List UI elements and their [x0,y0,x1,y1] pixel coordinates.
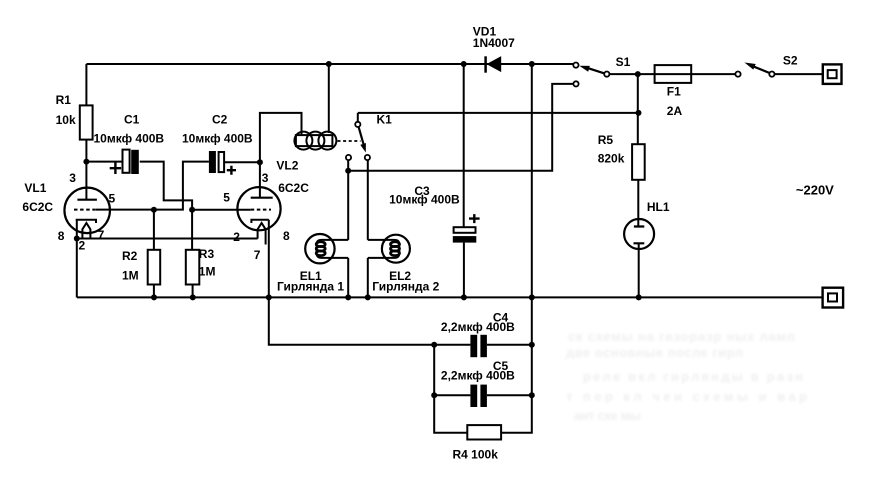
svg-text:10мкф 400В: 10мкф 400В [182,132,253,146]
svg-text:ант схе мы: ант схе мы [574,408,641,423]
svg-text:8: 8 [58,229,65,243]
svg-text:~220V: ~220V [796,183,834,198]
svg-text:Гирлянда 2: Гирлянда 2 [372,280,439,294]
svg-text:R3: R3 [199,247,215,261]
svg-text:10мкф 400В: 10мкф 400В [94,132,165,146]
svg-text:R2: R2 [122,249,138,263]
svg-text:HL1: HL1 [647,200,670,214]
svg-text:т пер кл чен схемы и: т пер кл чен схемы и вар [566,389,807,404]
svg-text:Гирлянда 1: Гирлянда 1 [277,280,344,294]
svg-text:R1: R1 [56,93,72,107]
svg-text:2,2мкф 400В: 2,2мкф 400В [441,369,515,383]
svg-text:2A: 2A [667,104,683,118]
svg-text:K1: K1 [377,113,393,127]
svg-text:C1: C1 [124,113,140,127]
svg-text:ск схемы на газоразр ных: ск схемы на газоразр ных ламп [568,329,795,344]
svg-text:R5: R5 [598,133,614,147]
svg-text:2: 2 [233,230,240,244]
svg-text:820k: 820k [598,152,625,166]
svg-text:1M: 1M [122,268,139,282]
svg-text:VL2: VL2 [276,159,298,173]
svg-text:7: 7 [98,228,105,242]
svg-text:F1: F1 [667,85,681,99]
svg-text:S1: S1 [616,55,631,69]
svg-text:5: 5 [109,192,116,206]
svg-text:2,2мкф 400В: 2,2мкф 400В [441,320,515,334]
svg-text:2: 2 [79,239,86,253]
svg-text:7: 7 [254,248,261,262]
svg-text:10мкф 400В: 10мкф 400В [389,193,460,207]
svg-text:1N4007: 1N4007 [473,36,515,50]
svg-text:R4 100k: R4 100k [453,448,499,462]
svg-text:1M: 1M [199,265,216,279]
svg-text:3: 3 [262,171,269,185]
svg-text:8: 8 [283,229,290,243]
svg-text:6С2С: 6С2С [22,200,53,214]
svg-text:C2: C2 [212,113,228,127]
svg-text:две основные после гирл: две основные после гирл [566,345,743,360]
svg-text:3: 3 [69,171,76,185]
svg-text:10k: 10k [56,113,76,127]
svg-text:реле вкл гирлянды в разн: реле вкл гирлянды в разн [583,369,803,384]
svg-text:VL1: VL1 [24,181,46,195]
svg-text:5: 5 [223,190,230,204]
svg-text:6С2С: 6С2С [278,181,309,195]
svg-text:S2: S2 [783,53,798,67]
